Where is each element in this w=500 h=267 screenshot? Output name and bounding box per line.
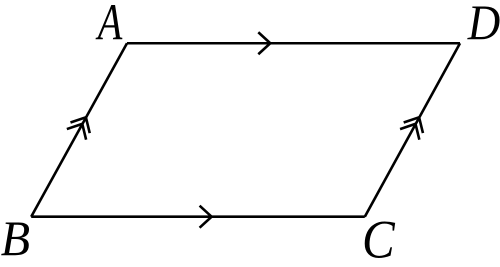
node label D [467,0,500,51]
node label C [362,210,396,267]
wire side AB (left slant) [31,43,127,216]
svg-text:B: B [1,211,30,266]
single parallel mark on AD [258,32,270,54]
wire side AD (top) [127,42,460,45]
svg-text:D: D [467,0,500,51]
wire side BC (bottom) [31,215,365,218]
wire side DC (right slant) [365,43,460,216]
double parallel mark on AB [67,112,96,140]
node label B [1,211,30,266]
double parallel mark on DC [400,112,429,140]
svg-text:C: C [362,210,396,267]
svg-text:A: A [95,0,123,50]
single parallel mark on BC [200,206,212,228]
node label A [95,0,123,50]
